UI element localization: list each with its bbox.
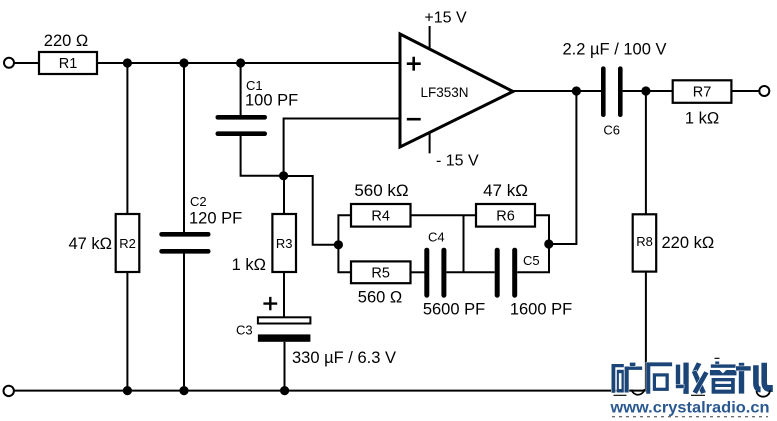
wire node A to inverting input <box>284 119 400 176</box>
svg-text:5600 PF: 5600 PF <box>423 301 485 319</box>
glyph yin <box>710 362 737 394</box>
value label 1600 PF <box>510 301 572 319</box>
value label 560 ohm <box>358 289 402 307</box>
watermark logo 矿石收音机 <box>612 362 771 394</box>
svg-text:R6: R6 <box>496 208 515 224</box>
value label 560 kohm <box>354 181 408 200</box>
glyph kuang <box>612 363 643 393</box>
value label 330 uF / 6.3 V <box>292 349 396 367</box>
resistor R8 <box>633 214 657 271</box>
watermark shadow marks <box>614 358 770 396</box>
value label 1 kohm (R7) <box>685 110 719 128</box>
wire R5 to C4 <box>411 271 425 273</box>
label C6 <box>603 123 620 138</box>
value label 220 ohm <box>44 32 88 50</box>
svg-text:100 PF: 100 PF <box>245 92 298 110</box>
svg-text:120 PF: 120 PF <box>189 210 242 228</box>
value label 47 kohm (R6) <box>483 181 528 200</box>
node dot ground C3 <box>280 386 289 395</box>
node dot junction 2 <box>179 58 188 67</box>
resistor R3 <box>272 214 296 272</box>
capacitor C2 <box>159 232 210 254</box>
wire C5 to node C <box>517 244 549 272</box>
wire R3 to C3 <box>283 272 285 318</box>
svg-text:R8: R8 <box>636 234 653 249</box>
resistor R1 <box>39 52 97 74</box>
svg-text:R4: R4 <box>371 208 390 224</box>
label C1 <box>246 78 263 93</box>
node dot junction 3 <box>236 58 245 67</box>
label C4 <box>428 230 445 245</box>
wire R8 branch vertical <box>645 91 647 391</box>
negative supply stub -15 V <box>430 133 479 170</box>
value label 47 kohm (R2) <box>68 235 112 253</box>
node dot output left of C6 <box>572 86 581 95</box>
node C dot <box>544 239 553 248</box>
svg-text:560 kΩ: 560 kΩ <box>354 181 408 200</box>
node A dot inverting input junction <box>279 171 288 180</box>
wire node C to output node <box>549 91 577 244</box>
wire R4 to R6 <box>411 214 477 216</box>
bottom ground rail wire <box>15 390 646 392</box>
resistor R2 <box>116 214 140 272</box>
wire C4 to C5 <box>446 271 494 273</box>
svg-text:1600 PF: 1600 PF <box>510 301 572 319</box>
node dot ground C2 <box>179 386 188 395</box>
positive supply stub +15 V <box>424 10 467 50</box>
input terminal top left <box>4 58 14 68</box>
node dot junction 1 <box>123 58 132 67</box>
svg-text:C2: C2 <box>190 194 207 209</box>
svg-text:C5: C5 <box>523 253 540 268</box>
capacitor C6 <box>601 66 623 117</box>
svg-text:C3: C3 <box>236 323 253 338</box>
value label 100 PF <box>245 92 298 110</box>
value label 5600 PF <box>423 301 485 319</box>
svg-text:LF353N: LF353N <box>420 85 468 100</box>
resistor R6 <box>476 204 535 227</box>
watermark url www.crystalradio.cn <box>609 400 769 417</box>
wire node B to R4 <box>338 215 351 245</box>
resistor R7 <box>673 80 732 103</box>
svg-text:www.crystalradio.cn: www.crystalradio.cn <box>609 400 769 417</box>
svg-text:330 µF / 6.3 V: 330 µF / 6.3 V <box>292 349 396 367</box>
svg-text:220 kΩ: 220 kΩ <box>662 234 715 252</box>
input terminal bottom left <box>4 386 14 396</box>
svg-text:R5: R5 <box>371 265 390 281</box>
glyph ji <box>736 363 770 394</box>
wire R6 to node C <box>535 215 549 244</box>
wire node A to node B <box>284 176 339 245</box>
svg-text:47 kΩ: 47 kΩ <box>68 235 112 253</box>
capacitor C1 <box>216 115 268 136</box>
value label 220 kohm (R8) <box>662 234 715 252</box>
wire R2 branch vertical <box>126 63 128 391</box>
svg-text:47 kΩ: 47 kΩ <box>483 181 528 200</box>
plus polarity mark C3 <box>263 297 277 310</box>
wire tee down between C4 and C5 <box>463 215 465 272</box>
svg-text:R1: R1 <box>59 56 78 72</box>
glyph shou <box>676 362 709 394</box>
label C3 <box>236 323 253 338</box>
output terminal <box>759 86 769 96</box>
value label 120 PF <box>189 210 242 228</box>
wire C1 branch <box>241 63 284 176</box>
label C2 <box>190 194 207 209</box>
svg-text:R3: R3 <box>276 236 293 251</box>
svg-text:R2: R2 <box>119 236 136 251</box>
svg-text:1 kΩ: 1 kΩ <box>232 256 266 274</box>
node dot right of C6 <box>641 86 650 95</box>
wire C2 branch vertical <box>183 63 185 391</box>
wire R7 to output terminal <box>731 90 758 92</box>
svg-text:- 15 V: - 15 V <box>436 152 479 169</box>
value label 1 kohm (R3) <box>232 256 266 274</box>
value label 2.2 uF / 100 V <box>563 41 667 59</box>
label C5 <box>523 253 540 268</box>
wire top rail input row <box>15 62 401 64</box>
capacitor C3 electrolytic <box>258 317 311 342</box>
svg-text:560 Ω: 560 Ω <box>358 289 402 307</box>
svg-text:C6: C6 <box>603 123 620 138</box>
wire node A to R3 <box>283 176 285 214</box>
svg-text:220 Ω: 220 Ω <box>44 32 88 50</box>
resistor R5 <box>351 261 411 283</box>
resistor R4 <box>351 204 411 227</box>
wire C6 to R7 <box>623 90 673 92</box>
wire node B to R5 <box>338 245 351 272</box>
glyph shi <box>646 362 672 393</box>
svg-text:R7: R7 <box>693 84 712 100</box>
svg-text:1 kΩ: 1 kΩ <box>685 110 719 128</box>
capacitor C4 <box>424 248 446 298</box>
node B dot feedback junction <box>334 240 343 249</box>
svg-text:C4: C4 <box>428 230 445 245</box>
wire C3 to ground rail <box>284 342 286 391</box>
node dot ground R2 <box>123 386 132 395</box>
svg-text:2.2 µF / 100 V: 2.2 µF / 100 V <box>563 41 667 59</box>
capacitor C5 <box>495 248 518 298</box>
svg-text:+15 V: +15 V <box>424 10 467 27</box>
op-amp U1 LF353N <box>400 34 513 147</box>
wire opamp output row <box>513 90 601 92</box>
